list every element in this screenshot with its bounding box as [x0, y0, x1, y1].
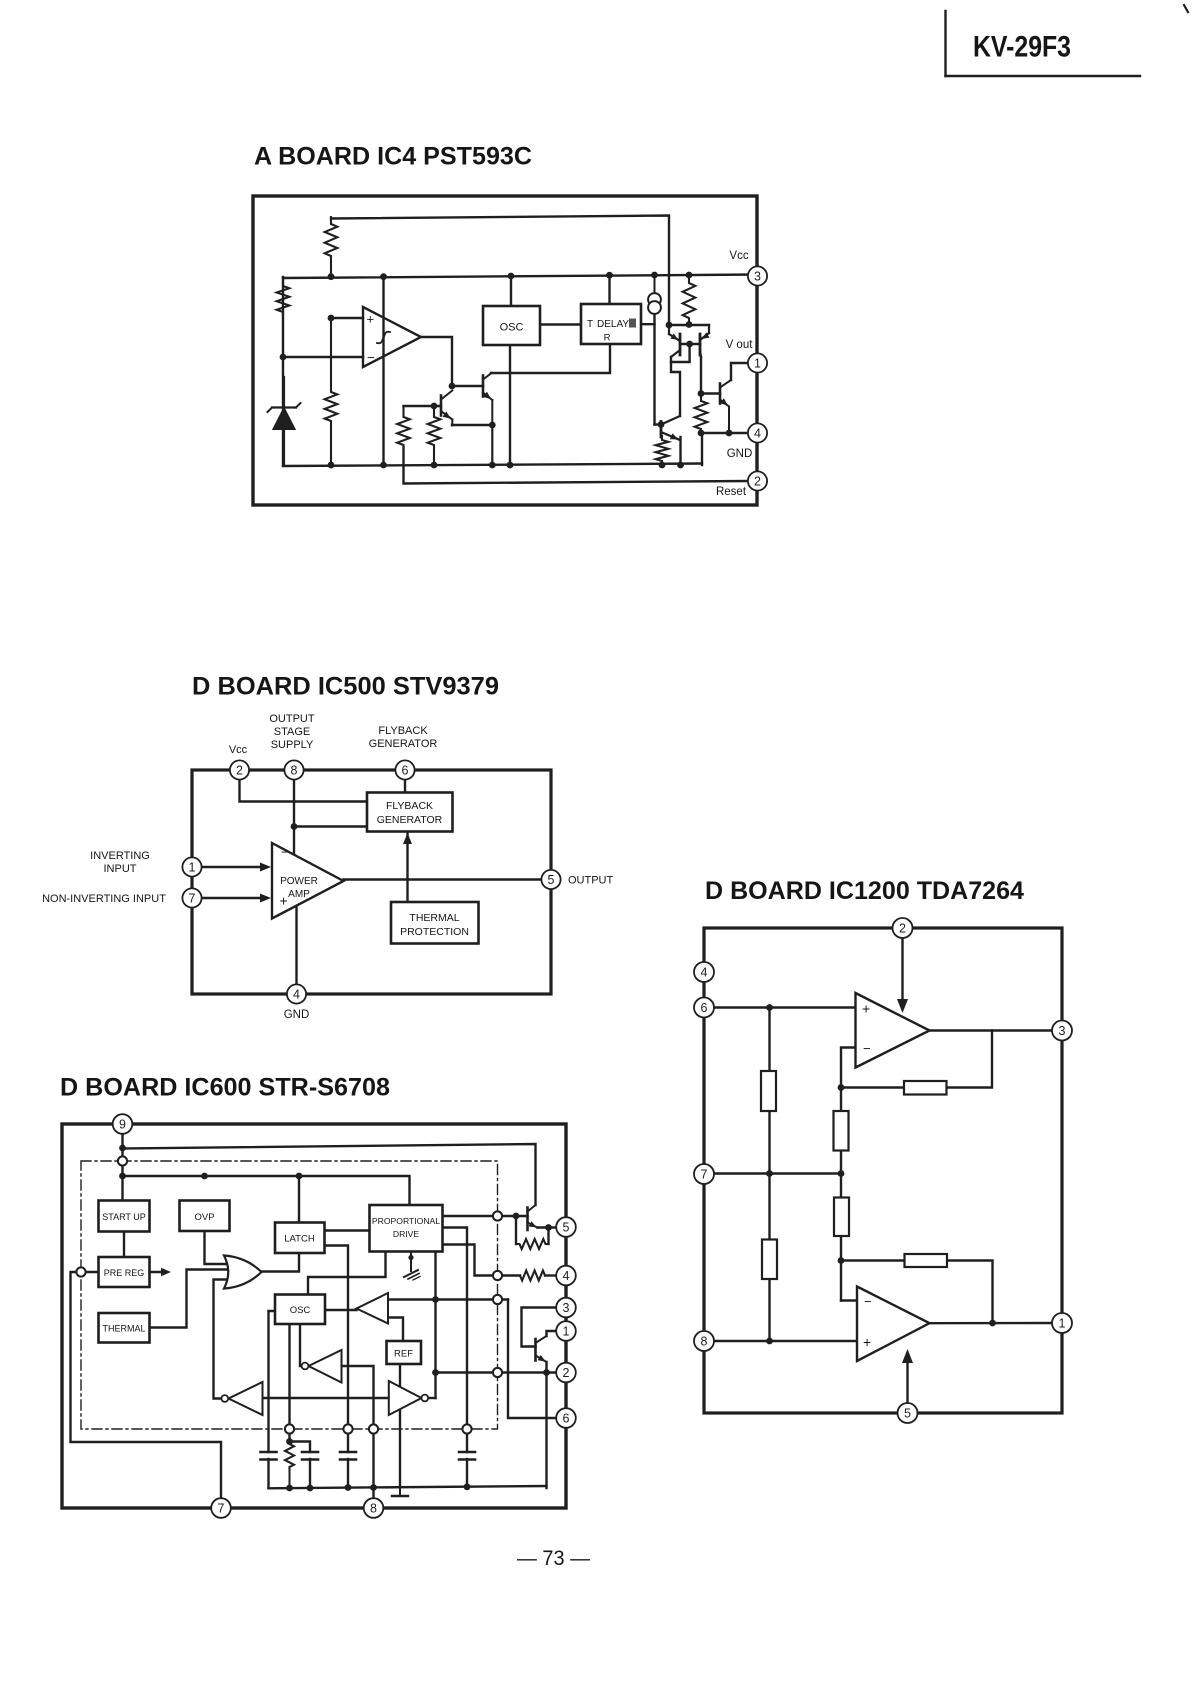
wire prereg left	[71, 1272, 222, 1499]
arrow inverting input	[202, 863, 272, 872]
wire pin7 row	[714, 1172, 841, 1174]
svg-text:Vcc: Vcc	[229, 744, 248, 756]
svg-text:1: 1	[754, 357, 761, 371]
wire emitter rail Q3 Q4	[452, 424, 493, 426]
resistor R2	[325, 318, 338, 465]
prereg arrow	[150, 1268, 172, 1276]
wire pin6 stub	[404, 779, 406, 793]
junction dots IC500	[291, 823, 298, 830]
wire pin3 to QB	[522, 1308, 558, 1347]
wire pin2 to flyback	[240, 779, 368, 802]
ground symbol under prop drive	[404, 1252, 420, 1281]
LATCH box	[275, 1223, 325, 1254]
wire GND	[701, 432, 748, 434]
op-amp U5	[857, 1287, 930, 1362]
transistor QB	[536, 1336, 547, 1362]
pin 2 IC600	[556, 1363, 576, 1383]
wire or-gate feedback	[214, 1280, 228, 1399]
wire QB collector pin1	[547, 1331, 558, 1336]
svg-text:3: 3	[754, 270, 761, 284]
wire op2 feedback	[841, 1261, 993, 1324]
pin 1 IC1200	[1052, 1313, 1072, 1333]
OVP box	[180, 1201, 230, 1232]
THERMAL box	[99, 1313, 150, 1343]
wire t1 input bus	[388, 1298, 508, 1300]
wire pin9 down	[121, 1133, 123, 1201]
transistor Q6	[720, 380, 731, 433]
svg-text:Vcc: Vcc	[729, 250, 748, 262]
svg-text:A BOARD IC4 PST593C: A BOARD IC4 PST593C	[254, 143, 532, 171]
svg-text:STAGE: STAGE	[274, 726, 310, 738]
svg-text:8: 8	[291, 764, 298, 778]
wire C3 lower	[347, 1459, 349, 1488]
transistor Q5	[661, 416, 680, 440]
svg-text:REF: REF	[394, 1349, 413, 1360]
transistor Q2 mirror right	[700, 325, 710, 357]
svg-text:V out: V out	[726, 339, 754, 351]
REF box	[387, 1341, 422, 1364]
boundary node circles IC600	[76, 1156, 502, 1433]
junction dots IC600	[119, 1145, 552, 1492]
transistor QA	[528, 1205, 538, 1230]
resistor R3	[277, 277, 290, 357]
svg-text:FLYBACK: FLYBACK	[378, 725, 428, 737]
wire latch lower	[325, 1246, 349, 1453]
svg-text:+: +	[863, 1334, 871, 1350]
svg-text:LATCH: LATCH	[284, 1234, 315, 1245]
wire op1 inverting	[841, 1048, 856, 1088]
wire osc to t1	[325, 1309, 357, 1311]
transistor Q3	[434, 391, 453, 426]
IC1200 outline box	[704, 928, 1062, 1413]
page number 73	[517, 1546, 590, 1570]
wire osc bottom 2	[300, 1324, 303, 1366]
wire mirror left collector	[671, 357, 680, 416]
pin 7 IC600	[211, 1498, 231, 1518]
wire pin5 arrow	[906, 1356, 908, 1404]
wire output	[344, 878, 543, 880]
wire Q6 base	[701, 392, 720, 394]
wire Q4 collector to delay	[491, 344, 610, 373]
svg-text:GENERATOR: GENERATOR	[377, 814, 443, 826]
svg-text:6: 6	[402, 764, 409, 778]
svg-text:GND: GND	[727, 448, 753, 460]
svg-text:7: 7	[701, 1168, 708, 1182]
wire bottom rail	[283, 464, 702, 467]
svg-text:1: 1	[563, 1325, 570, 1339]
svg-text:7: 7	[218, 1502, 225, 1516]
pin 6 flyback generator	[369, 725, 438, 780]
resistor R15	[904, 1081, 947, 1095]
pin 3 IC600	[556, 1298, 576, 1318]
ground stub on rail	[392, 1488, 408, 1497]
svg-text:Reset: Reset	[716, 486, 747, 498]
svg-text:2: 2	[563, 1366, 570, 1380]
resistor R14	[762, 1240, 777, 1280]
svg-text:5: 5	[563, 1221, 570, 1235]
wire prop out C	[443, 1245, 521, 1276]
resistor R13	[834, 1198, 849, 1237]
svg-text:2: 2	[899, 922, 906, 936]
svg-text:6: 6	[563, 1412, 570, 1426]
wire op2 output	[930, 1322, 1053, 1325]
wire node non-inverting input	[331, 317, 363, 319]
buffer T1	[357, 1293, 389, 1324]
svg-text:4: 4	[293, 988, 300, 1002]
resistor R16	[905, 1254, 948, 1267]
wire QA resistor risers	[516, 1216, 549, 1244]
wire flyback to thermal	[406, 832, 408, 903]
IC600 outline box	[62, 1124, 566, 1508]
svg-text:8: 8	[701, 1335, 708, 1349]
svg-text:−: −	[864, 1294, 872, 1309]
svg-text:— 73 —: — 73 —	[517, 1546, 590, 1570]
IC4 outline box	[253, 196, 757, 505]
svg-text:4: 4	[754, 427, 761, 441]
pin 9	[113, 1114, 133, 1134]
pin 2 IC1200	[893, 918, 913, 938]
wire C4 lower	[466, 1459, 468, 1488]
svg-text:R: R	[604, 333, 611, 344]
wire mirror bases	[680, 343, 700, 345]
zener diode D1	[268, 377, 301, 465]
wire Q4 base	[452, 385, 483, 387]
wire pin8 input	[714, 1340, 857, 1342]
svg-text:3: 3	[1059, 1024, 1066, 1038]
pin 1 V out	[726, 339, 768, 373]
svg-text:GENERATOR: GENERATOR	[369, 738, 438, 750]
wire OSC bottom	[509, 345, 511, 465]
svg-text:4: 4	[563, 1269, 570, 1283]
flyback generator box	[367, 793, 453, 832]
OSC box	[483, 306, 540, 345]
op-amp U4	[856, 993, 930, 1068]
pin 1 inverting input	[90, 850, 201, 877]
svg-text:THERMAL: THERMAL	[102, 1324, 145, 1334]
svg-text:PROTECTION: PROTECTION	[400, 926, 469, 938]
svg-text:PRE REG: PRE REG	[104, 1268, 145, 1278]
IC600 dashed box	[81, 1161, 498, 1429]
title A BOARD IC4 PST593C	[254, 143, 532, 171]
wire C2 lower	[309, 1459, 311, 1488]
wire latch top	[298, 1176, 300, 1223]
resistor R12	[834, 1111, 849, 1151]
resistor R osc	[285, 1442, 294, 1488]
pin 8 IC1200	[694, 1331, 714, 1351]
svg-text:−: −	[367, 350, 375, 365]
current source CS1	[648, 276, 661, 314]
svg-text:2: 2	[754, 475, 761, 489]
svg-text:8: 8	[370, 1502, 377, 1516]
svg-text:THERMAL: THERMAL	[409, 912, 459, 924]
wire op1 output	[930, 1029, 1053, 1031]
svg-text:+: +	[862, 1001, 870, 1017]
OR gate U3	[224, 1256, 262, 1289]
wire C2 branch	[290, 1442, 311, 1453]
wire t4 output	[428, 1397, 436, 1399]
pin 1 IC600	[556, 1321, 576, 1341]
wire QA emitter to pin5	[538, 1226, 558, 1228]
wire startup to prereg	[123, 1232, 125, 1258]
pin 4 GND	[727, 423, 767, 460]
buffer T2	[302, 1350, 342, 1383]
wire triangle bus	[263, 1397, 389, 1399]
svg-text:5: 5	[548, 873, 555, 887]
wire pin6	[508, 1300, 557, 1419]
svg-text:POWER: POWER	[280, 876, 318, 887]
resistor R6	[683, 275, 696, 325]
wire prop to t4	[434, 1252, 436, 1399]
wire mirror right collector	[700, 357, 702, 394]
svg-text:6: 6	[701, 1001, 708, 1015]
junction dots IC1200	[766, 1004, 996, 1344]
resistor R7	[656, 436, 669, 465]
svg-text:INPUT: INPUT	[104, 863, 137, 875]
START UP box	[99, 1201, 150, 1232]
pin 8 IC600	[364, 1498, 384, 1518]
arrow into flyback	[403, 833, 412, 844]
wire t1 lower stub	[388, 1318, 403, 1342]
pin 7 non-inverting input	[42, 888, 202, 907]
wire V out	[731, 363, 749, 380]
arrow non-inverting input	[202, 894, 272, 903]
wire thermal to or-gate	[150, 1270, 234, 1328]
wire ref down	[399, 1364, 401, 1488]
wire bus A	[123, 1144, 536, 1205]
wire prop out A	[443, 1215, 528, 1217]
wire osc bottom 1	[288, 1324, 290, 1442]
svg-text:SUPPLY: SUPPLY	[271, 739, 314, 751]
thermal protection box	[391, 902, 479, 944]
wire cap rail	[269, 1486, 547, 1488]
svg-text:DELAY: DELAY	[597, 319, 629, 330]
svg-text:−: −	[863, 1041, 871, 1056]
svg-text:1: 1	[189, 861, 196, 875]
svg-text:OUTPUT: OUTPUT	[269, 713, 315, 725]
svg-text:D BOARD IC500 STV9379: D BOARD IC500 STV9379	[192, 673, 499, 701]
svg-text:+: +	[280, 893, 288, 909]
capacitor C2	[302, 1452, 318, 1460]
pin 4 IC600	[556, 1266, 576, 1286]
transistor Q4	[483, 373, 492, 465]
wire mid column	[840, 1088, 842, 1301]
wire DELAY top	[608, 275, 610, 304]
arrow pin5 up	[902, 1349, 913, 1363]
junction dots IC4	[280, 272, 733, 469]
wire DELAY output	[641, 323, 655, 325]
wire pin8 to flyback	[294, 825, 367, 827]
wire pin8 supply	[293, 779, 295, 856]
pin 6 IC1200	[694, 998, 714, 1018]
resistor R8	[695, 394, 708, 434]
pin 5 IC1200	[898, 1403, 918, 1423]
svg-text:5: 5	[904, 1407, 911, 1421]
capacitor C1	[261, 1452, 277, 1460]
resistor R QA	[516, 1239, 549, 1249]
svg-text:DRIVE: DRIVE	[393, 1229, 420, 1239]
wire mid vertical	[382, 277, 384, 466]
svg-text:4: 4	[701, 966, 708, 980]
svg-text:+: +	[367, 312, 375, 327]
pin 7 IC1200	[694, 1164, 714, 1184]
svg-text:NON-INVERTING INPUT: NON-INVERTING INPUT	[42, 893, 166, 905]
svg-text:OSC: OSC	[290, 1305, 311, 1316]
wire OSC to DELAY	[540, 323, 581, 325]
transistor Q1 mirror left	[669, 325, 680, 357]
wire Reset	[404, 448, 749, 484]
wire pin6 input	[714, 1006, 856, 1008]
wire left rail	[282, 277, 284, 465]
pin 2 Vcc	[229, 744, 249, 780]
wire bus B	[123, 1176, 410, 1205]
wire prop to osc	[308, 1252, 386, 1295]
svg-text:2: 2	[236, 764, 243, 778]
resistor R5	[428, 406, 441, 465]
wire C1 lower	[267, 1459, 269, 1488]
svg-text:OVP: OVP	[194, 1212, 214, 1223]
svg-text:−: −	[281, 845, 289, 860]
wire Vcc rail	[283, 275, 757, 279]
arrow pin2 down	[897, 999, 908, 1013]
title D BOARD IC600 STR-S6708	[60, 1074, 390, 1102]
resistor R11	[761, 1071, 776, 1111]
svg-text:OSC: OSC	[500, 322, 524, 334]
wire R4-R5 top link	[404, 405, 442, 407]
svg-text:PROPORTIONAL: PROPORTIONAL	[372, 1216, 440, 1226]
wire ovp down	[205, 1231, 233, 1264]
wire pin2 arrow	[901, 938, 903, 1007]
capacitor C4	[459, 1452, 475, 1460]
pin 4 IC1200	[694, 962, 714, 982]
PROPORTIONAL DRIVE box	[370, 1205, 443, 1252]
wire mirror emitter rail	[669, 324, 709, 326]
svg-text:D BOARD IC600 STR-S6708: D BOARD IC600 STR-S6708	[60, 1074, 390, 1102]
resistor R1	[325, 217, 338, 277]
svg-text:1: 1	[1059, 1317, 1066, 1331]
pin 5 IC600	[556, 1217, 576, 1237]
IC500 outline box	[192, 770, 551, 994]
power amp U2	[272, 843, 344, 919]
wire pin4 link	[545, 1274, 557, 1276]
resistor R pin4	[520, 1271, 545, 1281]
buffer T3	[221, 1382, 262, 1415]
wire amp to gnd pin4	[295, 905, 297, 985]
wire or-gate to latch	[261, 1253, 299, 1272]
pin 8 output stage supply	[269, 713, 315, 780]
wire op-amp output	[421, 337, 452, 386]
wire latch to prop	[325, 1229, 370, 1231]
svg-text:T: T	[587, 319, 593, 330]
wire current source branch	[653, 314, 655, 425]
wire node inverting input	[283, 356, 363, 358]
op-amp U1	[363, 307, 421, 367]
pin 3 IC1200	[1052, 1021, 1072, 1041]
wire mirror diode link	[671, 344, 690, 362]
PRE REG box	[99, 1257, 150, 1287]
svg-text:INVERTING: INVERTING	[90, 850, 150, 862]
DELAY box	[581, 304, 641, 344]
pin 2 Reset	[716, 471, 767, 498]
wire op1 feedback	[841, 1031, 992, 1088]
svg-text:FLYBACK: FLYBACK	[386, 800, 433, 812]
pin 4 GND	[284, 984, 310, 1021]
wire osc left	[269, 1311, 276, 1452]
OSC box IC600	[275, 1295, 325, 1325]
wire pin2	[436, 1371, 558, 1373]
wire top feedback	[331, 216, 669, 326]
wire Q5 base link	[655, 423, 662, 425]
wire op2 inverting	[841, 1299, 857, 1301]
svg-text:OUTPUT: OUTPUT	[568, 875, 614, 887]
pin 6 IC600	[556, 1408, 576, 1428]
wire GND to bottom rail	[701, 433, 703, 465]
svg-text:7: 7	[189, 892, 196, 906]
title D BOARD IC500 STV9379	[192, 673, 499, 701]
svg-text:3: 3	[563, 1301, 570, 1315]
wire QB emitter down	[545, 1362, 547, 1488]
wire left column	[768, 1008, 770, 1342]
svg-text:D BOARD IC1200 TDA7264: D BOARD IC1200 TDA7264	[705, 877, 1024, 905]
svg-text:9: 9	[119, 1118, 126, 1132]
capacitor C3	[340, 1452, 356, 1460]
svg-text:KV-29F3: KV-29F3	[973, 31, 1071, 64]
svg-text:START UP: START UP	[102, 1212, 146, 1222]
wire t2 input	[342, 1366, 374, 1499]
buffer T4	[389, 1381, 428, 1415]
svg-text:GND: GND	[284, 1009, 310, 1021]
pin 3 Vcc	[729, 250, 767, 286]
wire Q5 emitter	[679, 437, 681, 465]
pin 5 output	[541, 870, 613, 889]
page header box KV-29F3	[946, 5, 1189, 76]
wire prop out B	[443, 1228, 468, 1453]
resistor R4	[397, 406, 410, 448]
svg-text:AMP: AMP	[288, 889, 310, 900]
wire OSC top	[510, 276, 512, 306]
title D BOARD IC1200 TDA7264	[705, 877, 1024, 905]
